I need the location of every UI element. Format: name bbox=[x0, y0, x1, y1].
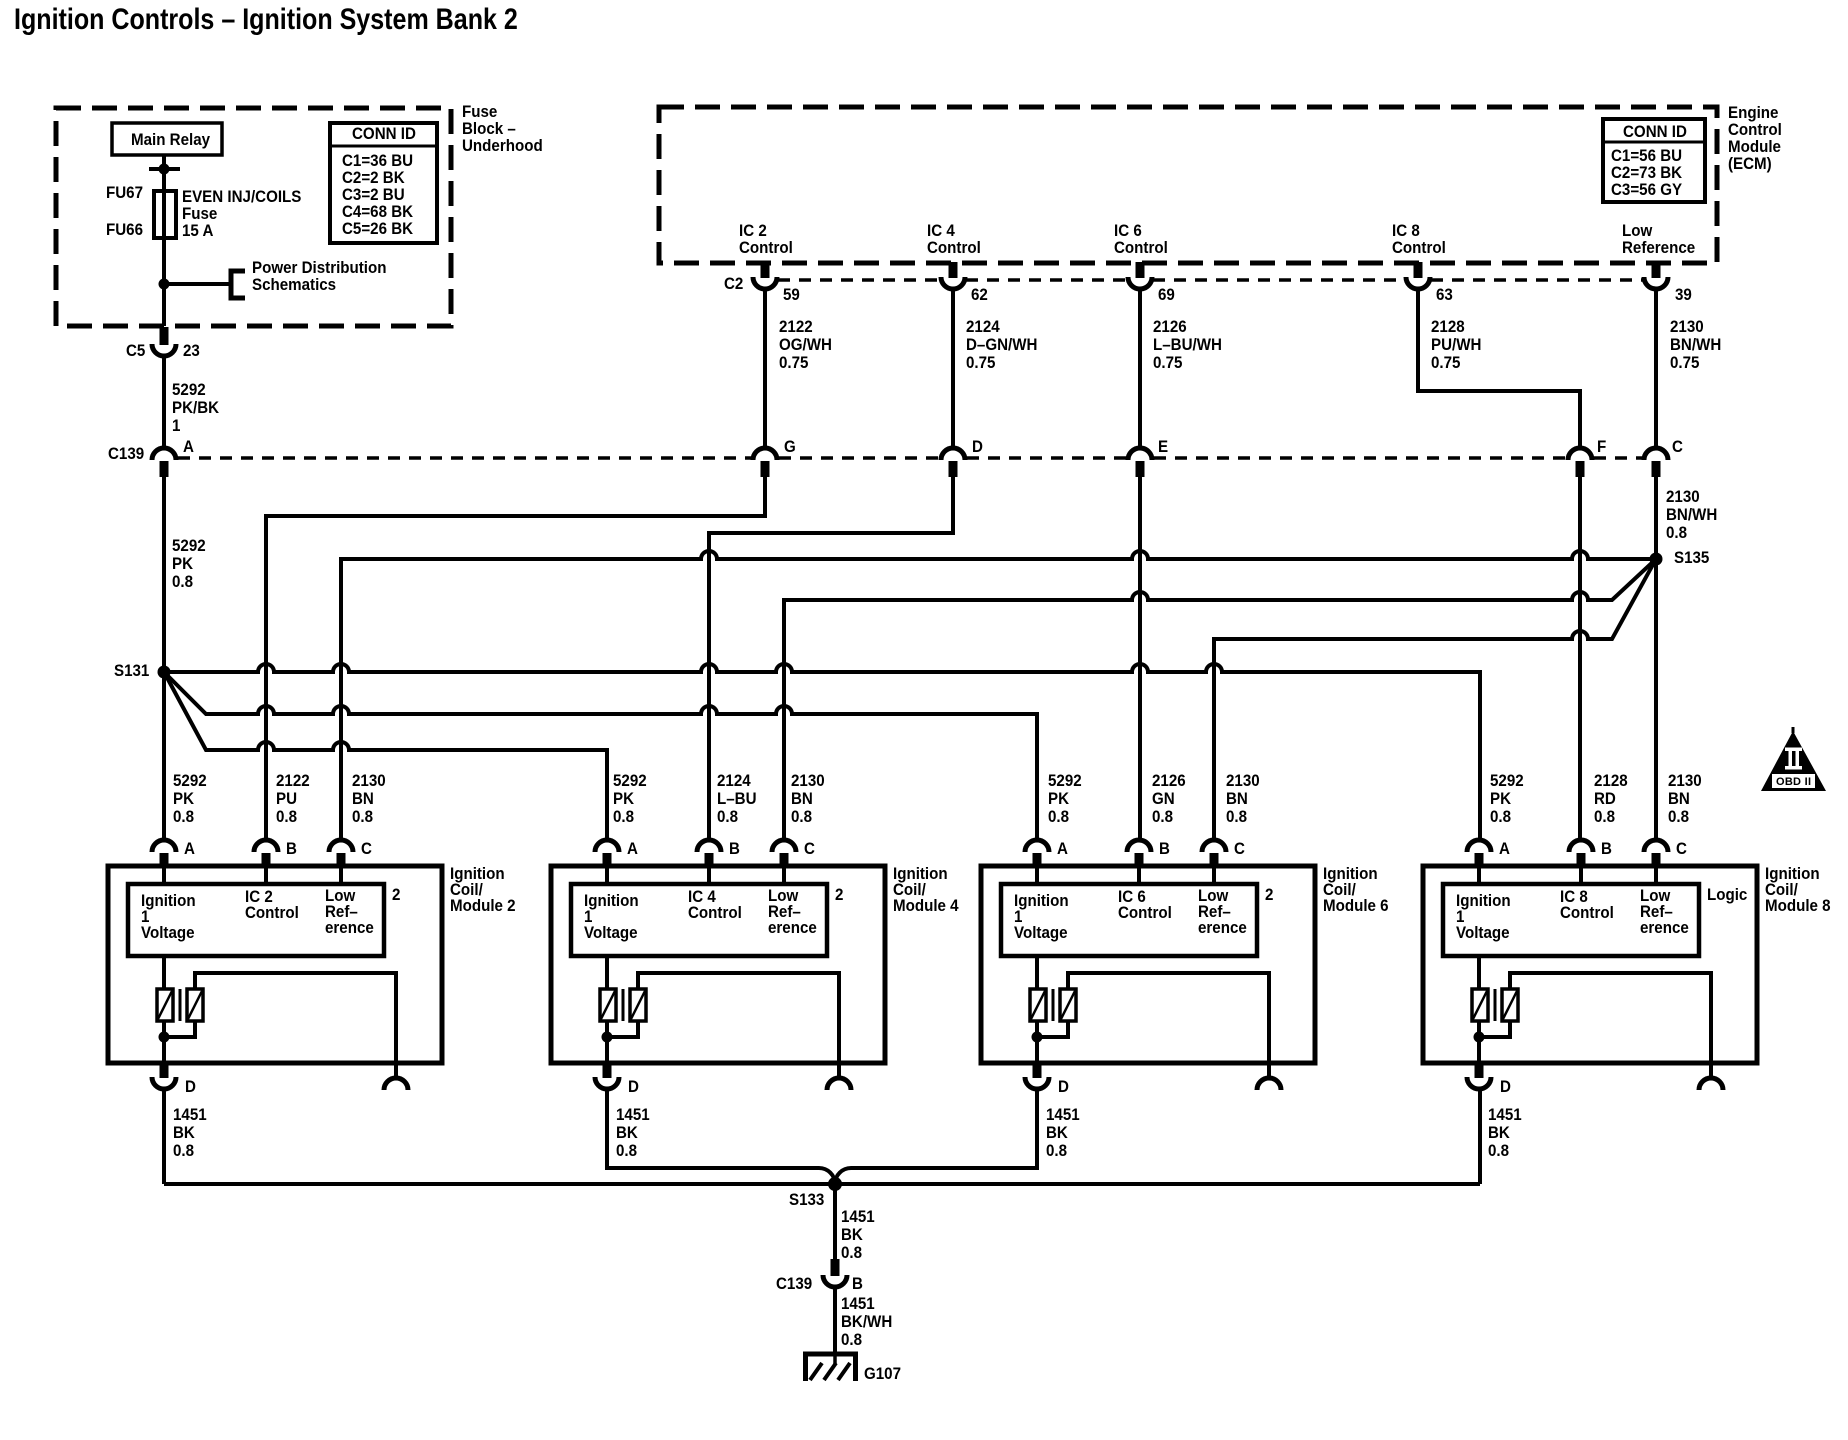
label module 2 wire 2130 BN 0.8 bbox=[352, 772, 386, 826]
module 6 wire coil primary to pin D bbox=[1035, 1021, 1039, 1063]
ECM connector C2 pin 59 (IC 2 control) male pin bbox=[761, 262, 770, 278]
ignition coil module 2 connector cavity B bbox=[254, 840, 278, 852]
engine control module (ECM) dashed box bbox=[659, 107, 1717, 263]
module 4 wire coil primary to pin D bbox=[605, 1021, 609, 1063]
label module 6 wire 2130 BN 0.8 bbox=[1226, 772, 1260, 826]
wire 2122 from pin 59 to C139-G bbox=[763, 289, 767, 448]
label module 6 terminal A bbox=[1057, 840, 1068, 857]
ECM connector C2 pin 62 cavity bbox=[941, 277, 965, 289]
module 6 coil secondary winding bbox=[1060, 989, 1076, 1021]
label wire 5292 PK 0.8 bbox=[172, 537, 206, 591]
connector C139 pin A male pin bbox=[160, 461, 169, 477]
module 6 pin D male pin bbox=[1033, 1063, 1042, 1078]
module 6 spark output connector bbox=[1257, 1078, 1281, 1090]
junction dot below main relay bbox=[159, 164, 170, 175]
wire 2130 BN bus from S135 to module 6 pin C bbox=[1214, 559, 1656, 841]
label connector C2 bbox=[724, 275, 743, 292]
module 8 connector cavity D bbox=[1467, 1077, 1491, 1089]
power distribution reference bracket bbox=[231, 271, 245, 298]
module 2 coil common junction bbox=[159, 1032, 170, 1043]
label module 2 terminal C bbox=[361, 840, 372, 857]
ignition coil module 2 pin C bbox=[337, 853, 346, 867]
module 2 spark output connector bbox=[384, 1078, 408, 1090]
module 6 wire coil secondary to spark output bbox=[1068, 973, 1269, 1078]
connector C139 cavity B bbox=[823, 1275, 847, 1287]
label module 6 wire 1451 BK 0.8 bbox=[1046, 1106, 1080, 1160]
junction tap bar at main relay feed bbox=[149, 167, 180, 171]
module 6 pin B internal lead bbox=[1137, 867, 1141, 884]
connector C139 cavity C bbox=[1644, 448, 1668, 460]
ignition coil module 2 connector cavity A bbox=[152, 840, 176, 852]
wire 2124 L-BU from C139-D to module 4 pin B bbox=[709, 477, 953, 841]
ignition coil module 4 connector cavity B bbox=[697, 840, 721, 852]
svg-text:OBD II: OBD II bbox=[1776, 776, 1811, 788]
ignition coil module 6 pin A bbox=[1033, 853, 1042, 867]
module 2 connector cavity D bbox=[152, 1077, 176, 1089]
label IC 8 Control (ECM pin) bbox=[1392, 222, 1446, 256]
ignition coil module 2 connector cavity C bbox=[329, 840, 353, 852]
wire 2124 from pin 62 to C139-D bbox=[951, 289, 955, 448]
label module 8 terminal B bbox=[1601, 840, 1612, 857]
label module 4 terminal B bbox=[729, 840, 740, 857]
label module 8 Ignition 1 Voltage bbox=[1456, 893, 1511, 941]
label Low Reference (ECM pin) bbox=[1622, 222, 1695, 256]
label Engine Control Module (ECM) bbox=[1728, 104, 1782, 172]
wire 5292 PK from C139-A through S131 to module 2 pin A bbox=[162, 477, 166, 841]
label fuse block CONN ID rows bbox=[342, 152, 413, 237]
label module 4 Low Reference bbox=[768, 888, 817, 936]
connector C2 dashed line segment 4 bbox=[1431, 278, 1643, 282]
module 8 spark output connector bbox=[1699, 1078, 1723, 1090]
label module 2 Ignition 1 Voltage bbox=[141, 893, 196, 941]
label module 6 Low Reference bbox=[1198, 888, 1247, 936]
label module 4 wire 2124 L-BU 0.8 bbox=[717, 772, 757, 826]
label module 8 terminal C bbox=[1676, 840, 1687, 857]
module 4 coil secondary winding bbox=[630, 989, 646, 1021]
label pin 39 bbox=[1675, 286, 1692, 303]
label C139 bbox=[108, 445, 144, 462]
wire 2126 from pin 69 to C139-E bbox=[1138, 289, 1142, 448]
module 2 wire coil secondary to spark output bbox=[195, 973, 396, 1078]
connector C139 cavity E bbox=[1128, 448, 1152, 460]
wire 2130 BN bus from S135 to module 2 pin C bbox=[341, 551, 1656, 841]
module 8 coil common junction bbox=[1474, 1032, 1485, 1043]
wire 5292 PK bus from S131 to module 4 pin A bbox=[164, 672, 607, 841]
label C139 terminal D bbox=[972, 438, 983, 455]
title: Ignition Controls – Ignition System Bank 2 bbox=[14, 5, 518, 35]
connector C139 dashed line segment 5 bbox=[1594, 456, 1642, 460]
connector C139 pin F male pin bbox=[1576, 461, 1585, 477]
module 2 wire coil secondary low end to junction bbox=[164, 1021, 195, 1037]
label wire 2130 BN/WH 0.8 bbox=[1666, 488, 1717, 542]
fuse FU67/FU66 symbol bbox=[154, 191, 176, 238]
wire 2130 from pin 39 to C139-C bbox=[1654, 289, 1658, 448]
label module 8 wire 1451 BK 0.8 bbox=[1488, 1106, 1522, 1160]
ECM connector C2 pin 63 (IC 8 control) male pin bbox=[1414, 262, 1423, 278]
wire 5292 PK/BK from C5 to C139-A bbox=[162, 356, 166, 447]
ECM connector C2 pin 62 (IC 4 control) male pin bbox=[949, 262, 958, 278]
label module 4 corner mark 2 bbox=[835, 886, 843, 903]
module 6 pin C internal lead bbox=[1212, 867, 1216, 884]
OBD II symbol bbox=[1761, 727, 1826, 791]
label module 4 terminal A bbox=[627, 840, 638, 857]
label pin 23 bbox=[183, 342, 200, 359]
ignition coil module 6 pin B bbox=[1135, 853, 1144, 867]
label module 8 terminal A bbox=[1499, 840, 1510, 857]
module 8 pin A internal lead bbox=[1477, 867, 1481, 884]
label C139 terminal C bbox=[1672, 438, 1683, 455]
label Ignition Coil/Module 4 bbox=[893, 866, 959, 914]
ECM connector C2 pin 39 (low reference) male pin bbox=[1652, 262, 1661, 278]
label module 4 Ignition 1 Voltage bbox=[584, 893, 639, 941]
ignition coil/module 6 outer box bbox=[981, 866, 1315, 1063]
label module 2 wire 1451 BK 0.8 bbox=[173, 1106, 207, 1160]
module 4 connector cavity D bbox=[595, 1077, 619, 1089]
ignition coil/module 4 inner function box bbox=[571, 884, 827, 956]
ignition coil module 6 pin C bbox=[1210, 853, 1219, 867]
ignition coil module 2 pin A bbox=[160, 853, 169, 867]
connector C139 dashed line segment 4 bbox=[1154, 456, 1566, 460]
module 8 pin D male pin bbox=[1475, 1063, 1484, 1078]
module 4 pin A internal lead bbox=[605, 867, 609, 884]
label EVEN INJ/COILS Fuse 15 A bbox=[182, 188, 301, 239]
label module 2 IC 2 Control bbox=[245, 889, 299, 921]
label C139 terminal A bbox=[183, 438, 194, 455]
ignition coil/module 4 outer box bbox=[551, 866, 885, 1063]
wire 1451 BK from S133 to C139-B bbox=[833, 1184, 837, 1259]
connector C139 cavity D bbox=[941, 448, 965, 460]
wire 1451 BK ground bus through S133 bbox=[164, 1182, 1480, 1186]
module 2 pin C internal lead bbox=[339, 867, 343, 884]
label module 4 wire 1451 BK 0.8 bbox=[616, 1106, 650, 1160]
module 8 coil primary winding bbox=[1472, 989, 1488, 1021]
label Power Distribution Schematics bbox=[252, 259, 387, 293]
wire 1451 BK from module 6 pin D to S133 bbox=[835, 1089, 1037, 1184]
label module 2 corner mark 2 bbox=[392, 886, 400, 903]
ground G107 symbol bbox=[803, 1354, 858, 1381]
label pin 69 bbox=[1158, 286, 1175, 303]
label module 2 terminal B bbox=[286, 840, 297, 857]
label S131 bbox=[114, 662, 149, 679]
label wire 2130 BN/WH 0.75 bbox=[1670, 318, 1721, 372]
label module 4 wire 5292 PK 0.8 bbox=[613, 772, 647, 826]
module 6 coil common junction bbox=[1032, 1032, 1043, 1043]
module 2 wire coil primary to pin D bbox=[162, 1021, 166, 1063]
wire 2122 PU from C139-G to module 2 pin B bbox=[266, 477, 765, 841]
label module 6 wire 5292 PK 0.8 bbox=[1048, 772, 1082, 826]
label G107 bbox=[864, 1365, 901, 1382]
module 8 wire ignition voltage to coil primary bbox=[1477, 956, 1481, 989]
label module 2 wire 2122 PU 0.8 bbox=[276, 772, 310, 826]
label module 8 Low Reference bbox=[1640, 888, 1689, 936]
ECM CONN ID table box bbox=[1603, 119, 1705, 202]
module 2 coil secondary winding bbox=[187, 989, 203, 1021]
label module 8 IC 8 Control bbox=[1560, 889, 1614, 921]
label FU67 bbox=[106, 184, 143, 201]
label wire 2124 D-GN/WH 0.75 bbox=[966, 318, 1037, 372]
ECM connector C2 pin 69 (IC 6 control) male pin bbox=[1136, 262, 1145, 278]
module 2 pin A internal lead bbox=[162, 867, 166, 884]
module 4 spark output connector bbox=[827, 1078, 851, 1090]
splice S131 bbox=[158, 666, 171, 679]
module 6 coil primary winding bbox=[1030, 989, 1046, 1021]
label Ignition Coil/Module 8 bbox=[1765, 866, 1831, 914]
wire 2126 GN from C139-E to module 6 pin B bbox=[1138, 477, 1142, 841]
label FU66 bbox=[106, 221, 143, 238]
fuse block CONN ID table box bbox=[330, 123, 437, 243]
module 4 pin D male pin bbox=[603, 1063, 612, 1078]
connector C139 dashed line segment 2 bbox=[779, 456, 939, 460]
connector C139 dashed line segment 3 bbox=[967, 456, 1126, 460]
wire 2128 from pin 63 jog to C139-F bbox=[1418, 289, 1580, 448]
connector C139 pin D male pin bbox=[949, 461, 958, 477]
label pin 63 bbox=[1436, 286, 1453, 303]
ignition coil module 6 connector cavity C bbox=[1202, 840, 1226, 852]
connector C2 dashed line segment 1 bbox=[778, 278, 940, 282]
connector C139 cavity G bbox=[753, 448, 777, 460]
module 4 coil core bbox=[622, 989, 625, 1021]
label module 8 terminal D bbox=[1500, 1078, 1511, 1095]
label wire 2128 PU/WH 0.75 bbox=[1431, 318, 1481, 372]
ignition coil module 8 connector cavity A bbox=[1467, 840, 1491, 852]
label S135 bbox=[1674, 549, 1709, 566]
wire 5292 PK bus from S131 to module 8 pin A bbox=[164, 664, 1480, 841]
label module 4 IC 4 Control bbox=[688, 889, 742, 921]
ignition coil module 4 connector cavity C bbox=[772, 840, 796, 852]
ignition coil/module 2 outer box bbox=[108, 866, 442, 1063]
label wire 2122 OG/WH 0.75 bbox=[779, 318, 832, 372]
connector C139 dashed line segment 1 bbox=[178, 456, 751, 460]
label C5 bbox=[126, 342, 145, 359]
label wire 1451 BK 0.8 below S133 bbox=[841, 1208, 875, 1262]
module 6 wire coil secondary low end to junction bbox=[1037, 1021, 1068, 1037]
module 4 wire ignition voltage to coil primary bbox=[605, 956, 609, 989]
ignition coil module 8 pin C bbox=[1652, 853, 1661, 867]
splice S135 bbox=[1650, 553, 1663, 566]
main relay box bbox=[112, 123, 222, 155]
module 6 connector cavity D bbox=[1025, 1077, 1049, 1089]
label C139 terminal B bbox=[852, 1275, 863, 1292]
module 8 wire coil secondary low end to junction bbox=[1479, 1021, 1510, 1037]
module 8 pin B internal lead bbox=[1579, 867, 1583, 884]
label wire 1451 BK/WH 0.8 bbox=[841, 1295, 892, 1349]
wire 2130 BN bus from S135 to module 4 pin C bbox=[784, 559, 1656, 841]
ignition coil module 4 pin B bbox=[705, 853, 714, 867]
module 4 pin B internal lead bbox=[707, 867, 711, 884]
label module 8 wire 2128 RD 0.8 bbox=[1594, 772, 1628, 826]
fuse block - underhood dashed box bbox=[56, 108, 451, 326]
connector C139 pin C male pin bbox=[1652, 461, 1661, 477]
wire 1451 BK from module 8 pin D down bbox=[1478, 1089, 1482, 1184]
label module 2 terminal D bbox=[185, 1078, 196, 1095]
module 4 wire coil secondary low end to junction bbox=[607, 1021, 638, 1037]
ignition coil module 6 connector cavity A bbox=[1025, 840, 1049, 852]
wire 2130 BN from C139-C through S135 to module 8 pin C bbox=[1654, 477, 1658, 841]
splice S133 bbox=[828, 1177, 842, 1191]
module 2 coil primary winding bbox=[157, 989, 173, 1021]
wire 5292 PK bus from S131 to module 6 pin A bbox=[164, 672, 1037, 841]
ignition coil module 8 pin A bbox=[1475, 853, 1484, 867]
label module 2 terminal A bbox=[184, 840, 195, 857]
connector C5 pin 23 male pin bbox=[160, 327, 169, 345]
label C139 terminal F bbox=[1597, 438, 1606, 455]
connector C139 pin B male pin bbox=[831, 1259, 840, 1276]
module 4 pin C internal lead bbox=[782, 867, 786, 884]
ignition coil module 4 pin A bbox=[603, 853, 612, 867]
wire 1451 BK from module 2 pin D down bbox=[162, 1089, 166, 1184]
label module 8 wire 2130 BN 0.8 bbox=[1668, 772, 1702, 826]
label module 8 corner mark Logic bbox=[1707, 886, 1747, 903]
label CONN ID header (ECM) bbox=[1623, 123, 1687, 140]
module 8 coil core bbox=[1494, 989, 1497, 1021]
wire tap to power distribution bracket bbox=[164, 282, 229, 286]
module 6 coil core bbox=[1052, 989, 1055, 1021]
module 4 coil primary winding bbox=[600, 989, 616, 1021]
ignition coil module 8 connector cavity C bbox=[1644, 840, 1668, 852]
ignition coil module 2 pin B bbox=[262, 853, 271, 867]
module 6 wire ignition voltage to coil primary bbox=[1035, 956, 1039, 989]
label module 6 IC 6 Control bbox=[1118, 889, 1172, 921]
wire main relay to fuse FU67/FU66 and down to C5 bbox=[162, 155, 166, 326]
label module 4 wire 2130 BN 0.8 bbox=[791, 772, 825, 826]
label C139 (ground side) bbox=[776, 1275, 812, 1292]
module 4 wire coil secondary to spark output bbox=[638, 973, 839, 1078]
fuse block CONN ID header separator bbox=[330, 145, 437, 148]
label Fuse Block - Underhood bbox=[462, 103, 543, 154]
module 2 pin B internal lead bbox=[264, 867, 268, 884]
label IC 4 Control (ECM pin) bbox=[927, 222, 981, 256]
ignition coil/module 2 inner function box bbox=[128, 884, 384, 956]
label wire 2126 L-BU/WH 0.75 bbox=[1153, 318, 1222, 372]
connector C5 cavity 23 bbox=[152, 344, 176, 356]
connector C139 cavity A bbox=[152, 448, 176, 460]
module 4 coil common junction bbox=[602, 1032, 613, 1043]
module 8 wire coil primary to pin D bbox=[1477, 1021, 1481, 1063]
label pin 59 bbox=[783, 286, 800, 303]
label module 6 wire 2126 GN 0.8 bbox=[1152, 772, 1186, 826]
ignition coil/module 8 inner function box bbox=[1443, 884, 1699, 956]
label Main Relay bbox=[131, 131, 210, 148]
label module 6 Ignition 1 Voltage bbox=[1014, 893, 1069, 941]
label CONN ID header (fuse block) bbox=[352, 125, 416, 142]
ECM CONN ID table header separator bbox=[1603, 141, 1705, 144]
module 2 coil core bbox=[179, 989, 182, 1021]
module 2 wire ignition voltage to coil primary bbox=[162, 956, 166, 989]
label pin 62 bbox=[971, 286, 988, 303]
label module 4 terminal C bbox=[804, 840, 815, 857]
module 6 pin A internal lead bbox=[1035, 867, 1039, 884]
ignition coil module 6 connector cavity B bbox=[1127, 840, 1151, 852]
label IC 2 Control (ECM pin) bbox=[739, 222, 793, 256]
label module 6 corner mark 2 bbox=[1265, 886, 1273, 903]
label module 2 Low Reference bbox=[325, 888, 374, 936]
ignition coil module 8 pin B bbox=[1577, 853, 1586, 867]
ignition coil module 4 pin C bbox=[780, 853, 789, 867]
module 8 coil secondary winding bbox=[1502, 989, 1518, 1021]
junction dot to power distribution tap bbox=[159, 279, 170, 290]
label module 6 terminal D bbox=[1058, 1078, 1069, 1095]
connector C139 cavity F bbox=[1568, 448, 1592, 460]
wire 1451 BK from module 4 pin D to S133 bbox=[607, 1089, 835, 1184]
ignition coil module 8 connector cavity B bbox=[1569, 840, 1593, 852]
module 2 pin D male pin bbox=[160, 1063, 169, 1078]
label module 6 terminal B bbox=[1159, 840, 1170, 857]
ignition coil/module 6 inner function box bbox=[1001, 884, 1257, 956]
label C139 terminal E bbox=[1158, 438, 1168, 455]
module 8 wire coil secondary to spark output bbox=[1510, 973, 1711, 1078]
wire 2128 RD from C139-F to module 8 pin B bbox=[1578, 477, 1582, 841]
ignition coil/module 8 outer box bbox=[1423, 866, 1757, 1063]
label Ignition Coil/Module 6 bbox=[1323, 866, 1389, 914]
label module 4 terminal D bbox=[628, 1078, 639, 1095]
connector C139 pin E male pin bbox=[1136, 461, 1145, 477]
label S133 bbox=[789, 1191, 824, 1208]
label module 6 terminal C bbox=[1234, 840, 1245, 857]
label module 2 wire 5292 PK 0.8 bbox=[173, 772, 207, 826]
label wire 5292 PK/BK 1 bbox=[172, 381, 219, 435]
connector C139 pin G male pin bbox=[761, 461, 770, 477]
ECM connector C2 pin 63 cavity bbox=[1406, 277, 1430, 289]
module 8 pin C internal lead bbox=[1654, 867, 1658, 884]
ECM connector C2 pin 59 cavity bbox=[753, 277, 777, 289]
connector C2 dashed line segment 2 bbox=[966, 278, 1127, 282]
label IC 6 Control (ECM pin) bbox=[1114, 222, 1168, 256]
ECM connector C2 pin 69 cavity bbox=[1128, 277, 1152, 289]
ignition coil module 4 connector cavity A bbox=[595, 840, 619, 852]
label C139 terminal G bbox=[784, 438, 796, 455]
label Ignition Coil/Module 2 bbox=[450, 866, 516, 914]
connector C2 dashed line segment 3 bbox=[1153, 278, 1405, 282]
label ECM CONN ID rows bbox=[1611, 147, 1682, 198]
ECM connector C2 pin 39 cavity bbox=[1644, 277, 1668, 289]
label module 8 wire 5292 PK 0.8 bbox=[1490, 772, 1524, 826]
wire 1451 BK/WH to ground G107 bbox=[833, 1287, 837, 1355]
